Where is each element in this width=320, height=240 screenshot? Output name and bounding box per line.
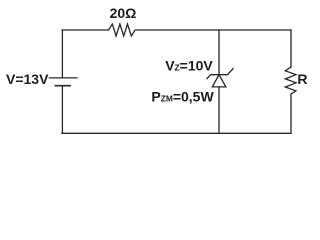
svg-text:V=13V: V=13V xyxy=(6,71,49,87)
svg-text:R: R xyxy=(297,71,307,87)
svg-text:20Ω: 20Ω xyxy=(110,5,137,21)
svg-text:VZ=10V: VZ=10V xyxy=(165,57,213,73)
